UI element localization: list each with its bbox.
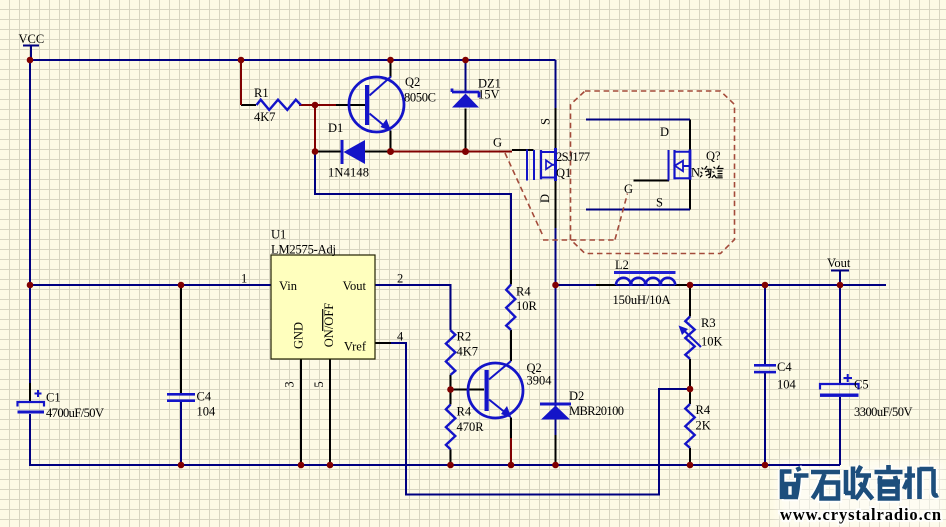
svg-text:15V: 15V <box>478 88 500 102</box>
svg-text:LM2575-Adj: LM2575-Adj <box>271 243 336 257</box>
svg-text:470R: 470R <box>457 420 485 434</box>
svg-text:Vout: Vout <box>827 256 851 270</box>
svg-text:Vref: Vref <box>344 340 367 354</box>
svg-text:C4: C4 <box>777 360 792 374</box>
svg-text:2: 2 <box>397 272 403 286</box>
svg-text:D1: D1 <box>328 121 343 135</box>
svg-text:C1: C1 <box>46 391 61 405</box>
svg-text:N: N <box>691 166 700 180</box>
svg-text:R1: R1 <box>254 86 269 100</box>
svg-text:VCC: VCC <box>19 32 45 46</box>
svg-text:104: 104 <box>197 405 217 419</box>
svg-text:5: 5 <box>312 381 326 387</box>
svg-text:D2: D2 <box>569 389 584 403</box>
svg-text:10R: 10R <box>516 299 538 313</box>
svg-text:Q2: Q2 <box>405 75 420 89</box>
svg-text:10K: 10K <box>701 335 723 349</box>
svg-text:R4: R4 <box>457 405 472 419</box>
svg-text:1N4148: 1N4148 <box>328 166 369 180</box>
svg-text:D: D <box>538 194 552 203</box>
svg-text:2K: 2K <box>696 419 711 433</box>
svg-text:4K7: 4K7 <box>457 345 479 359</box>
svg-text:D: D <box>660 125 669 139</box>
svg-text:R2: R2 <box>457 330 472 344</box>
svg-text:2SJ177: 2SJ177 <box>556 150 590 164</box>
svg-text:www.crystalradio.cn: www.crystalradio.cn <box>780 505 941 524</box>
svg-text:Vout: Vout <box>343 279 367 293</box>
svg-text:104: 104 <box>777 378 797 392</box>
svg-text:G: G <box>493 136 502 150</box>
svg-text:C5: C5 <box>854 378 869 392</box>
svg-text:R3: R3 <box>701 316 716 330</box>
svg-text:3904: 3904 <box>527 374 553 388</box>
svg-text:Q?: Q? <box>706 149 721 163</box>
svg-text:150uH/10A: 150uH/10A <box>613 293 671 307</box>
svg-text:U1: U1 <box>271 228 286 242</box>
svg-text:S: S <box>539 118 553 125</box>
svg-text:C4: C4 <box>197 390 212 404</box>
svg-text:S: S <box>656 196 663 210</box>
svg-text:3: 3 <box>283 381 297 387</box>
svg-text:GND: GND <box>291 322 305 349</box>
svg-text:Q1: Q1 <box>556 166 571 180</box>
svg-text:MBR20100: MBR20100 <box>569 404 624 418</box>
svg-text:ON/OFF: ON/OFF <box>322 303 336 348</box>
svg-text:8050C: 8050C <box>404 91 436 105</box>
svg-text:4700uF/50V: 4700uF/50V <box>46 406 104 420</box>
svg-text:L2: L2 <box>615 258 629 272</box>
svg-text:G: G <box>624 182 633 196</box>
svg-text:R4: R4 <box>696 403 711 417</box>
svg-text:Vin: Vin <box>279 279 298 293</box>
svg-text:1: 1 <box>241 272 247 286</box>
svg-text:4K7: 4K7 <box>254 110 276 124</box>
svg-text:R4: R4 <box>516 285 531 299</box>
svg-text:3300uF/50V: 3300uF/50V <box>854 405 913 419</box>
svg-text:4: 4 <box>397 330 404 344</box>
